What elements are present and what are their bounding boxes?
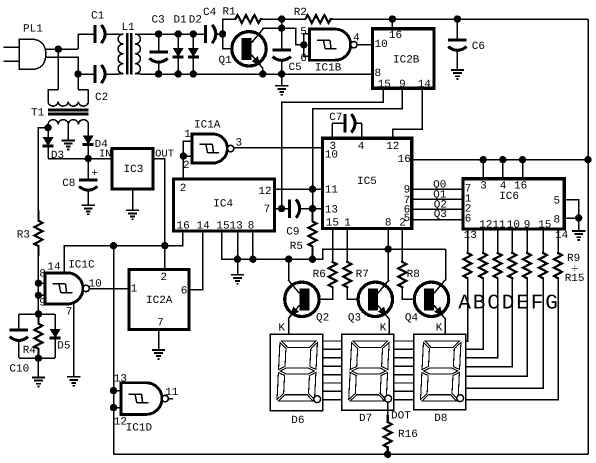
wire Q1 collector riser [262,28,264,29]
node IC1C pin8 [35,280,42,287]
wire node down [281,19,283,28]
node group top [35,310,42,317]
svg-text:D6: D6 [291,415,304,427]
svg-text:C3: C3 [152,15,165,27]
svg-text:16: 16 [177,221,190,233]
svg-text:2: 2 [399,218,406,230]
wire IC2A pin2 riser [164,246,166,270]
svg-text:IC1C: IC1C [68,260,95,272]
node IC1B inputs [300,41,307,48]
ground on row [237,259,239,275]
gate IC1D [121,383,162,415]
svg-text:R1: R1 [223,7,237,19]
svg-text:K: K [380,323,387,335]
svg-text:9: 9 [39,298,46,310]
IC IC5 [323,138,412,228]
svg-text:Q2: Q2 [316,313,329,325]
wire IC5 pin15 to R6 [332,229,334,261]
ground at C5 rail [281,74,283,86]
svg-text:R6: R6 [313,269,326,281]
ground at C8 [82,205,95,214]
node IC6 pin4 riser [499,156,506,163]
wire to IC1B inputs [282,28,301,45]
svg-text:1: 1 [131,284,138,296]
svg-text:13: 13 [325,205,338,217]
svg-text:IC6: IC6 [499,191,519,203]
diode D5 [54,314,56,329]
node R16 on bottom rail [384,451,391,458]
transformer T1 secondary [48,120,88,125]
svg-text:C4: C4 [203,7,217,19]
svg-text:R2: R2 [294,7,307,19]
display D8 [414,334,466,410]
wire PL1 upper output [46,48,78,50]
svg-text:Q1: Q1 [219,55,233,67]
svg-text:13: 13 [464,230,477,242]
node Q1 emitter on rail [259,70,266,77]
capacitor C8 (polarized) [87,159,89,180]
svg-text:PL1: PL1 [23,24,43,36]
svg-text:7: 7 [66,306,73,318]
wire D3/D4 cathodes to IC3 IN [48,158,112,160]
resistor R1 [236,15,261,23]
wire IC5 pin9 to IC6 pin7 [412,188,463,190]
svg-text:C7: C7 [329,112,342,124]
wire IC1D inputs [114,390,122,392]
svg-text:R5: R5 [290,241,303,253]
wire IC5 pin2 to R8 [401,229,403,261]
gate IC1C [45,273,83,304]
svg-text:T1: T1 [31,108,45,120]
wire IC1A output to IC5 pin10 [234,147,323,149]
ground at C6 [451,70,464,79]
node IC6 pin3 riser [480,156,487,163]
svg-text:IC1D: IC1D [126,422,153,434]
svg-text:D1: D1 [174,15,188,27]
display D7 [342,334,394,410]
wire IC1D net vertical [113,246,115,455]
svg-text:R3: R3 [17,230,30,242]
svg-text:D5: D5 [57,341,70,353]
wire PL1 lower output [46,57,78,74]
segment bus rows between D7 and D8 [394,340,414,342]
svg-text:1: 1 [184,129,191,141]
node C3 top [155,30,162,37]
wire IC2B pin9 down to IC5 pin11/13 [313,88,403,208]
svg-text:15: 15 [216,221,229,233]
svg-text:R16: R16 [398,429,418,441]
capacitor C10 [18,314,20,330]
svg-text:10: 10 [507,219,520,231]
resistor R4 [34,314,42,358]
node D4/C8/IN [85,155,92,162]
node C6 on rail [454,15,461,22]
capacitor C7 loop on IC5 pins 3-4 [331,123,333,138]
wire IC4 pin14 to IC2A pin6 [189,231,203,290]
svg-text:D3: D3 [51,150,64,162]
wire group bottom rail [19,357,55,359]
capacitor C4 [193,33,205,35]
wire Q1 emitter to ground rail [262,68,264,74]
svg-text:R15: R15 [565,273,585,285]
node D1 top [175,30,182,37]
svg-text:D7: D7 [359,413,372,425]
svg-text:11: 11 [325,185,339,197]
svg-text:7: 7 [157,317,164,329]
svg-text:IC1A: IC1A [194,120,221,132]
svg-text:14: 14 [197,221,211,233]
wire Q4 collector riser [445,249,447,281]
svg-text:D8: D8 [434,413,447,425]
svg-text:15: 15 [538,219,551,231]
plug PL1 [19,39,46,69]
svg-text:8: 8 [385,218,392,230]
wire top supply rail [330,18,588,20]
resistor R12 [511,229,513,252]
wire IC1C output to IC2A pin1 [89,288,129,290]
wire IC1D output stub [168,398,173,400]
wire top oscillator row [140,33,206,35]
node PL1 output junction [55,46,62,53]
capacitor C6 [456,19,458,40]
wire to Q1 collector [263,27,282,29]
wire IC6 pin4 riser [502,160,504,179]
transformer T1 core [48,109,88,112]
resistor R10 [482,229,484,252]
svg-text:16: 16 [398,154,411,166]
node IC6 pin16 riser [519,156,526,163]
svg-text:ABCDEFG: ABCDEFG [458,293,560,316]
wire IC4 pin16 row [64,231,183,273]
resistor R11 [497,229,499,252]
svg-text:2: 2 [180,183,187,195]
node IC5 pin11 net [309,186,316,193]
wire DOT to R16 [387,402,389,415]
wire IC2B pin15 down to C9 [282,88,384,208]
capacitor C3 [158,34,160,52]
node C3 bottom [155,70,162,77]
wire bottom rail [114,453,589,455]
svg-text:14: 14 [47,261,61,273]
transformer T1 primary [48,90,88,102]
svg-text:K: K [278,323,285,335]
resistor R8 [398,261,406,288]
svg-text:R7: R7 [356,269,369,281]
resistor R2 [306,15,331,23]
svg-text:12: 12 [114,417,127,429]
node C4/R1/Q1 base [219,30,226,37]
svg-text:R8: R8 [407,269,420,281]
IC IC4 [174,179,275,231]
svg-text:C1: C1 [91,11,105,23]
resistor R7 [343,261,351,288]
svg-text:8: 8 [554,215,561,227]
resistor R5 [309,209,317,260]
svg-text:14: 14 [418,79,432,91]
wire IC1C inputs [38,282,45,284]
svg-text:Q3: Q3 [434,209,447,221]
node Q1 collector / C5 / IC1B [278,25,285,32]
wire IC4 pin13 stub [237,231,239,259]
svg-text:IC4: IC4 [213,199,233,211]
node C5 bottom on rail [278,70,285,77]
svg-text:C8: C8 [62,178,75,190]
wire IC2A pin7 ground [158,330,160,350]
node IC1D pin13 [110,387,117,394]
wire Q4 emitter to D8 cathode [444,319,446,335]
svg-text:14: 14 [555,230,569,242]
wire IC4 pin8 stub [252,231,254,259]
svg-text:13: 13 [230,221,243,233]
svg-text:12: 12 [258,186,271,198]
svg-text:15: 15 [326,218,339,230]
svg-text:IC1B: IC1B [315,63,342,75]
svg-text:IN: IN [99,149,112,161]
resistor R9 [467,229,469,252]
svg-text:8: 8 [248,221,255,233]
IC IC2A [129,270,189,330]
wire Q1 base [223,34,238,49]
node C2 junction [74,70,81,77]
wire group top rail [19,313,55,315]
node pin8 on ground row [249,256,256,263]
node Q2 collector on row [285,256,292,263]
wire IC4 pin12 to IC5 pin11 [275,188,323,190]
wire C4 node up to R1 [223,19,236,34]
capacitor C9 [275,208,290,210]
wire IC5 pin16 supply row [412,159,588,161]
diode D3 [47,133,49,138]
svg-text:DOT: DOT [391,411,411,423]
transistor Q3 [358,282,392,316]
node pin13 on ground row [234,256,241,263]
wire Q2 collector riser [288,259,290,281]
inductor L1 [118,34,123,74]
svg-text:IC2B: IC2B [393,55,420,67]
transistor Q1 [232,32,266,66]
svg-text:1: 1 [344,218,351,230]
node IC1C pin9 [35,292,42,299]
svg-text:6: 6 [181,286,188,298]
segment bus rows between D6 and D7 [323,340,342,342]
wire Q3 emitter to D7 cathode [388,319,390,335]
wire IC1B output to IC2B pin10 [357,44,372,46]
node C9 right / IC5 pin13 net [309,205,316,212]
node IC1D net on row [110,242,117,249]
svg-text:K: K [436,323,443,335]
svg-text:10: 10 [375,39,388,51]
wire right edge down [587,19,589,454]
wire IC6 pin16 riser [522,160,524,179]
wire IC3 OUT down to IC2A pin2 [153,159,165,270]
svg-text:7: 7 [264,204,271,216]
svg-text:2: 2 [161,272,168,284]
svg-text:C10: C10 [9,364,29,376]
svg-text:15: 15 [378,79,391,91]
svg-text:Q3: Q3 [348,313,361,325]
capacitor C5 [281,28,283,50]
wire C2 node to T1 primary right [77,74,79,90]
wire IC5 pin1 to R7 [346,229,348,261]
wire R7 to Q3 base [347,288,367,299]
node IC5 pin8 / Q3 on rail [385,246,392,253]
transistor Q2 [285,282,319,316]
wire IC6 pin3 riser [482,160,484,179]
diode D2 [192,34,194,48]
wire IC5 pin7 to IC6 pin1 [412,198,463,200]
node group bottom [35,355,42,362]
wire IC2B pin8 to ground rail [282,73,373,75]
node R5 bottom on row [309,256,316,263]
gate IC1B [309,29,350,60]
diode D4 [87,131,89,136]
svg-text:5: 5 [554,196,561,208]
svg-text:C9: C9 [286,226,299,238]
svg-text:8: 8 [39,268,46,280]
svg-text:6: 6 [465,213,472,225]
svg-text:R4: R4 [23,345,37,357]
node IC1D pin12 [110,404,117,411]
node IC6 pin8 [575,214,582,221]
svg-text:4: 4 [358,141,365,153]
wire Q2 emitter to display D6 cathode [288,319,290,335]
svg-text:10: 10 [325,150,338,162]
wire IC5 pin6 to IC6 pin2 [412,208,463,210]
svg-text:12: 12 [479,219,492,231]
display D6 [270,334,323,411]
node T1 secondary left / R3 branch [44,124,51,131]
wire T1 secondary left to D3 [47,124,49,132]
ground below group [37,358,39,377]
svg-text:4: 4 [353,33,360,45]
wire IC2B pin14 to IC5 pin12 [393,88,423,138]
capacitor C1 [78,33,95,35]
node OUT net on row [161,242,168,249]
wire IC1C pin7 to ground [73,304,75,377]
wire IC1A inputs tie to IC4 pin2 [183,141,191,179]
wire IC3 ground [132,189,134,210]
svg-text:11: 11 [165,387,179,399]
wire R1 to R2 node [260,18,306,20]
svg-text:+: + [91,168,98,180]
svg-text:13: 13 [114,374,127,386]
svg-text:C2: C2 [95,92,108,104]
wire branch to R3 [38,128,48,211]
node IC1A input junction [180,152,187,159]
wire T1 secondary centre tap to ground [67,124,69,140]
svg-text:12: 12 [386,141,399,153]
node right edge [584,156,591,163]
wire to C1 [77,34,79,49]
IC IC6 [463,179,564,229]
svg-text:Q4: Q4 [405,313,419,325]
resistor R13 [526,229,528,252]
node C9 left / IC2B15 net [278,205,285,212]
wire PL1 node to T1 primary left [57,49,59,89]
wire R3 column down [37,256,39,314]
wire IC5 pin5 to IC6 pin6 [412,219,463,221]
svg-text:IC5: IC5 [357,176,377,188]
svg-text:L1: L1 [122,22,136,34]
svg-text:C6: C6 [472,41,485,53]
node D1 bottom [175,70,182,77]
node D2 bottom [190,70,197,77]
wire IC1B input tie [304,34,310,57]
ground at IC6 pin8 [572,231,585,240]
resistor R3 [34,211,42,257]
wire T1 secondary right to D4 [87,124,89,131]
node IC2B pin16 on rail [389,15,396,22]
IC IC3 voltage regulator [112,149,153,190]
IC IC2B [373,29,435,89]
transistor Q4 [414,282,448,316]
wire IC4 pin15 to ground row [222,231,446,259]
resistor R15 [557,229,559,252]
svg-text:4: 4 [500,180,507,192]
resistor R6 [329,261,337,288]
svg-text:IC3: IC3 [124,164,144,176]
svg-text:D2: D2 [189,15,202,27]
svg-text:3: 3 [480,180,487,192]
resistor R14 [542,229,544,252]
wire R8 to Q4 base [402,288,423,299]
gate IC1A [192,134,228,163]
svg-text:16: 16 [514,180,527,192]
svg-text:11: 11 [492,219,506,231]
svg-text:IC2A: IC2A [146,295,173,307]
node R1/R2 [278,15,285,22]
resistor R16 [384,415,392,454]
svg-text:16: 16 [389,30,402,42]
node D2 top [190,30,197,37]
wire IC2B pin16 to rail [391,19,393,29]
diode D1 [177,34,179,48]
wire IC6 pin5 to pin8 and ground [564,200,578,231]
wire bottom ground rail oscillator [140,73,373,75]
capacitor C2 [78,73,95,75]
wire R6 to Q2 base [310,288,332,299]
wire IC5 pin8 down to Q3 collector [387,229,389,281]
